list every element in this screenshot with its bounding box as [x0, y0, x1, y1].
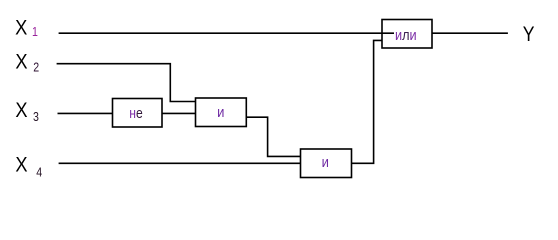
wire X4 to AND2 [59, 162, 301, 164]
wire AND1 to AND2 [246, 117, 300, 156]
svg-text:X: X [15, 153, 27, 177]
svg-text:2: 2 [33, 61, 39, 75]
text не [129, 105, 143, 121]
svg-text:и: и [322, 154, 329, 170]
label X3 [15, 99, 27, 123]
text и (AND2) [322, 154, 329, 170]
label X1 [15, 16, 27, 40]
gate OR box (или) [382, 20, 432, 49]
svg-text:Y: Y [523, 22, 535, 46]
gate NOT box (не) [113, 99, 163, 128]
wire AND2 to OR [352, 40, 383, 163]
label X4 subscript 4 [36, 166, 42, 180]
svg-text:3: 3 [33, 110, 39, 124]
svg-text:не: не [129, 105, 143, 121]
svg-text:X: X [15, 16, 27, 40]
label X2 [15, 50, 27, 74]
label Y [523, 22, 535, 46]
svg-text:или: или [395, 27, 417, 43]
wire NOT to AND1 [162, 112, 196, 114]
text и (AND1) [217, 104, 224, 120]
label X3 subscript 3 [33, 110, 39, 124]
svg-text:1: 1 [32, 25, 38, 39]
gate AND2 box (и) [301, 149, 352, 178]
label X2 subscript 2 [33, 61, 39, 75]
label X1 subscript 1 [32, 25, 38, 39]
label X4 [15, 153, 27, 177]
wire X3 to NOT [58, 112, 113, 114]
gate AND1 box (и) [196, 98, 247, 127]
wire X1 to OR [59, 32, 394, 34]
wire OR to Y [432, 32, 508, 34]
text или [395, 27, 417, 43]
wire X2 to AND1 [57, 64, 196, 102]
svg-text:4: 4 [36, 166, 42, 180]
svg-text:X: X [15, 50, 27, 74]
svg-text:X: X [15, 99, 27, 123]
svg-text:и: и [217, 104, 224, 120]
